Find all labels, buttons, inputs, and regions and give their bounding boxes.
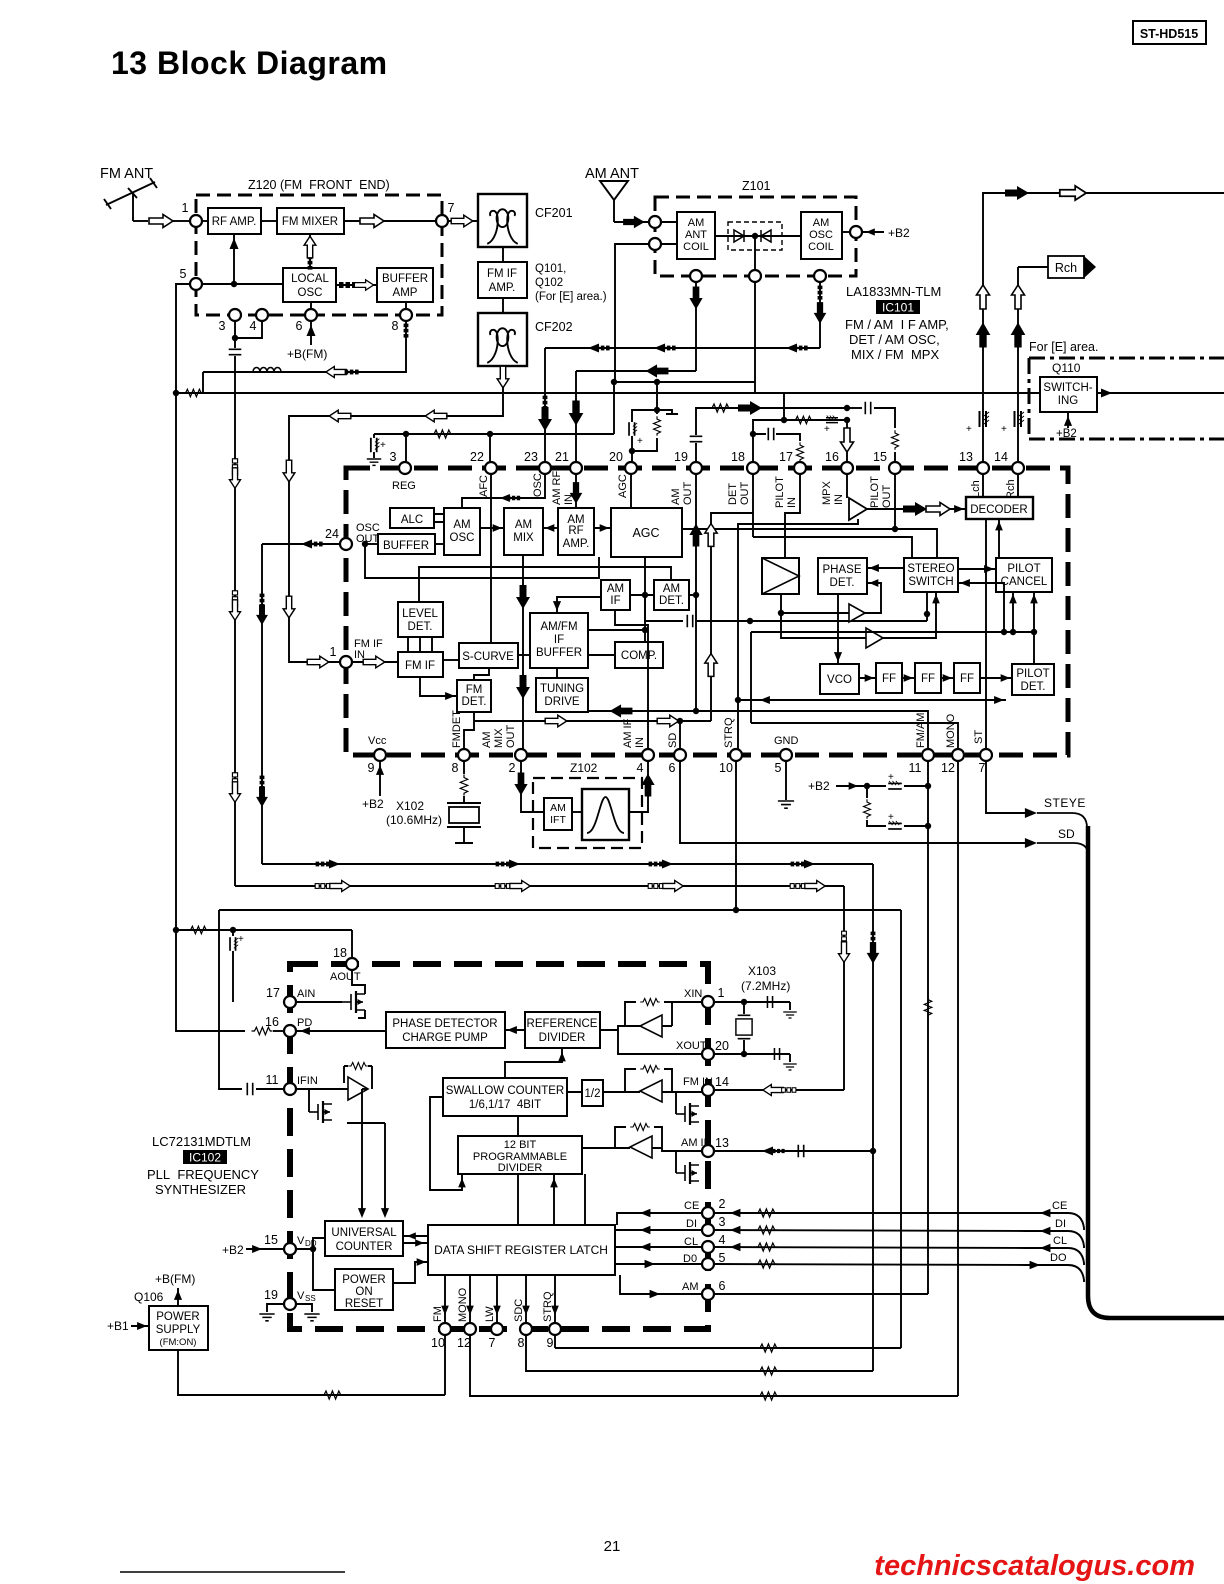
svg-text:IN: IN: [786, 497, 798, 508]
svg-text:PILOT: PILOT: [1016, 668, 1049, 680]
pin2 thick down arrow into Z102: [521, 761, 544, 812]
svg-text:FF: FF: [960, 673, 974, 685]
pin21 rail down with thick arrow: [575, 371, 577, 462]
open beads+arrow stacks on x=235 rail: [232, 459, 237, 475]
wire level det top to y567 row into AM DET top: [419, 567, 671, 602]
PD resistor: [252, 1027, 273, 1035]
svg-text:14: 14: [715, 1075, 729, 1089]
wire antenna to pin1: [133, 220, 148, 222]
SWALLOW COUNTER box: [443, 1078, 567, 1116]
pin3 down to junction: [234, 321, 236, 348]
pin18 ext wire up, cap right, resistor to pin17: [753, 434, 766, 462]
pin15 ext cap + resistor: [847, 407, 862, 409]
IC102 bottom pin 7 LW: [491, 1323, 503, 1335]
varactor diodes dashed box: [728, 222, 782, 250]
svg-text:Z101: Z101: [742, 179, 771, 193]
svg-text:IF: IF: [554, 634, 564, 646]
svg-text:FM/AM: FM/AM: [915, 713, 927, 748]
open arrow into pin 1: [149, 215, 173, 228]
IC101 pin 22 AFC: [489, 434, 491, 462]
svg-text:REG: REG: [392, 480, 416, 492]
svg-text:Rch: Rch: [1055, 261, 1077, 275]
buffer right to COMP: [588, 654, 615, 656]
ecap pair to FM/AM rail: [867, 785, 886, 787]
svg-text:X103: X103: [748, 964, 776, 978]
AM/FM IF BUFFER box: [530, 613, 588, 668]
LEVEL DET box: [398, 602, 443, 637]
pin23 rail down with beads + thick arrow: [544, 348, 546, 462]
svg-text:10: 10: [431, 1336, 445, 1350]
svg-text:(For [E] area.): (For [E] area.): [535, 291, 607, 303]
wire pin1-RFAMP: [202, 220, 208, 222]
PILOT CANCEL box: [996, 558, 1052, 592]
SD curve into bus: [1037, 843, 1089, 858]
pin 7: [436, 215, 448, 227]
IC101 dashed box: [346, 468, 1068, 755]
svg-text:Lch: Lch: [970, 480, 982, 498]
open left arrows on y=416 wire: [425, 410, 447, 422]
drop from coil wire down to resistor row: [202, 372, 204, 393]
Z102 filter box with curve: [582, 789, 629, 840]
svg-text:CF201: CF201: [535, 206, 573, 220]
IFIN amp + resistor: [296, 1088, 348, 1090]
svg-text:PLL FREQUENCY: PLL FREQUENCY: [147, 1167, 259, 1182]
svg-text:4: 4: [250, 319, 257, 333]
svg-text:+: +: [824, 424, 830, 435]
pin18 wire up to y420 row: [753, 420, 784, 434]
IC101 bottom pin 4 AM IF IN: [642, 749, 654, 761]
svg-text:AM: AM: [688, 217, 705, 229]
stubs local osc/buffer amp to pins 6/8: [311, 302, 406, 309]
svg-text:TUNING: TUNING: [540, 683, 584, 695]
svg-text:17: 17: [779, 450, 793, 464]
IC101 pin 17 PILOT IN: [794, 462, 806, 474]
inductor on pin8 wire: [253, 368, 281, 373]
thick bus down right side, curving right at bottom: [1088, 826, 1224, 1318]
stereo switch bottom rail with dot: [926, 592, 928, 621]
pin 8: [400, 309, 412, 321]
drop from y382 to pin20 cluster: [656, 382, 658, 410]
amp1 wiring to phase det right: [781, 583, 881, 613]
arrow stereo switch to pilot cancel: [958, 568, 996, 570]
svg-text:19: 19: [674, 450, 688, 464]
pilot det bottom wire y700: [738, 699, 1006, 701]
svg-text:4: 4: [637, 761, 644, 775]
AOUT mosfet: [352, 970, 365, 994]
svg-text:SD: SD: [1058, 827, 1075, 841]
wire AM ANT COIL down to y371 row, thick down arrow: [695, 282, 697, 371]
Z120 FM FRONT END dashed box: [196, 195, 442, 315]
svg-text:DIVIDER: DIVIDER: [498, 1162, 543, 1174]
1/2 box: [582, 1080, 603, 1106]
AFC pin22 rail down to S-CURVE top: [490, 474, 492, 643]
open arrow pin7 to CF201: [448, 220, 478, 222]
svg-text:IN: IN: [833, 494, 845, 505]
pilot out pin15 rail joins AGC line: [894, 474, 896, 529]
svg-text:AM: AM: [481, 732, 493, 749]
svg-text:3: 3: [390, 450, 397, 464]
pin17 PILOT IN wire down to comparator: [785, 474, 800, 558]
pin 16 PD: [284, 1025, 296, 1037]
svg-text:CF202: CF202: [535, 320, 573, 334]
CE wire to right with resistor and label: [714, 1212, 1026, 1214]
svg-text:6: 6: [719, 1279, 726, 1293]
svg-text:18: 18: [333, 946, 347, 960]
IC101 pin 23 OSC: [539, 462, 551, 474]
S-CURVE box: [459, 643, 518, 668]
svg-text:OSC: OSC: [298, 287, 323, 299]
arrow AM RF AMP to AGC: [594, 527, 611, 529]
svg-text:CE: CE: [1052, 1200, 1067, 1212]
buffer right wires to stereo switch rails: [682, 529, 937, 558]
TUNING DRIVE box: [536, 678, 588, 712]
series cap on rail: [229, 349, 242, 354]
svg-text:14: 14: [994, 450, 1008, 464]
arrow into stereo switch right at y583: [958, 583, 1004, 632]
pin5 GND drop: [785, 761, 787, 800]
svg-text:OSC: OSC: [809, 229, 833, 241]
solid rail x873 down to AM IN row: [872, 864, 874, 1371]
AM MIX box: [504, 508, 543, 555]
ref divider bottom to swallow counter top: [505, 1048, 562, 1078]
svg-text:V: V: [297, 1235, 305, 1247]
FF1 box: [876, 663, 902, 693]
svg-text:FM MIXER: FM MIXER: [282, 216, 338, 228]
BUFFER to AM OSC link: [435, 543, 444, 545]
ALC box: [390, 508, 434, 528]
DATA SHIFT REGISTER LATCH box: [428, 1225, 615, 1275]
svg-text:For [E] area.: For [E] area.: [1029, 340, 1098, 354]
UNIVERSAL COUNTER box: [325, 1221, 403, 1256]
drop from y382 to REG wire: [613, 382, 615, 434]
svg-text:1/6,1/17 4BIT: 1/6,1/17 4BIT: [469, 1099, 541, 1111]
svg-text:STEYE: STEYE: [1044, 796, 1086, 810]
svg-text:OUT: OUT: [881, 485, 893, 509]
svg-text:Q106: Q106: [134, 1290, 164, 1304]
DECODER box: [966, 497, 1033, 519]
IC102 bottom pin 9 STRQ: [549, 1323, 561, 1335]
arrows VCO-FF1-FF2-FF3-PILOT DET chain: [859, 677, 876, 679]
universal counter to DSRL double arrow: [403, 1236, 428, 1243]
FM IF - S-CURVE link: [443, 659, 459, 661]
open beads arrow into FM IN from right: [714, 1089, 844, 1091]
FM IF down to FM DET with arrow: [420, 677, 457, 696]
svg-text:DRIVE: DRIVE: [544, 696, 579, 708]
svg-text:15: 15: [873, 450, 887, 464]
svg-text:RF AMP.: RF AMP.: [212, 216, 257, 228]
svg-text:MPX: MPX: [821, 481, 833, 506]
AM DET right stub to AM OUT rail: [689, 594, 696, 596]
AGC box: [611, 508, 682, 557]
svg-text:24: 24: [325, 527, 339, 541]
branch from dot down to cap row y621: [645, 595, 683, 621]
FM IN mosfet: [676, 1103, 699, 1125]
left resistor row y930: [173, 927, 179, 933]
svg-text:CANCEL: CANCEL: [1001, 576, 1048, 588]
DSRL up arrows into 12bit divider: [554, 1174, 585, 1225]
svg-text:AGC: AGC: [617, 474, 629, 498]
model label ST-HD515: [1133, 21, 1206, 44]
wire y632 from mono rail to pilot det top: [751, 631, 1034, 633]
CF202 box: [478, 313, 527, 366]
svg-text:FM / AM I F AMP,: FM / AM I F AMP,: [845, 317, 949, 332]
svg-text:LOCAL: LOCAL: [291, 273, 329, 285]
pin 19 VSS: [284, 1298, 296, 1310]
svg-text:Z102: Z102: [570, 761, 598, 775]
ALC to AM OSC double link: [434, 514, 444, 522]
pin8 beads down then wire left: [203, 321, 406, 372]
AM OSC COIL box: [801, 212, 842, 259]
REFERENCE DIVIDER box: [525, 1012, 600, 1048]
x176 rail down to PD row: [176, 930, 245, 1031]
svg-text:19: 19: [264, 1288, 278, 1302]
amp2 wiring into stereo switch bottom: [781, 592, 936, 638]
svg-text:UNIVERSAL: UNIVERSAL: [331, 1227, 397, 1239]
ref divider right stub to xtal osc: [600, 1029, 618, 1031]
IC101 bottom pin 6 SD: [674, 749, 686, 761]
STRQ link wire y910: [219, 909, 901, 911]
Z102 dashed box: [533, 778, 642, 848]
svg-text:DET.: DET.: [462, 696, 487, 708]
svg-text:+: +: [888, 812, 894, 823]
AM IN mosfet: [676, 1162, 699, 1184]
svg-text:OSC: OSC: [450, 532, 475, 544]
svg-text:SD: SD: [667, 733, 679, 748]
AM wire from pin6 right, up the FM/AM rail: [714, 1293, 928, 1295]
svg-text:BUFFER: BUFFER: [382, 273, 428, 285]
CF202 output: open down arrow, down then left then down to FM IF IN: [289, 366, 503, 662]
+B2 feed into pin9 Vcc: [379, 761, 381, 796]
svg-text:+B2: +B2: [222, 1243, 244, 1257]
pin 18 AOUT: [346, 958, 358, 970]
svg-text:7: 7: [448, 201, 455, 215]
VCO box: [820, 664, 859, 694]
svg-text:RF: RF: [568, 525, 583, 537]
SD wire from pin6: [680, 761, 1030, 843]
row y371 with thick left arrow to pin21 rail: [576, 370, 696, 372]
pin24 wire left with beads+solid arrow to x=262 rail: [262, 543, 340, 545]
FM IF AMP box: [478, 262, 527, 298]
Z101 right pin and +B2: [850, 226, 862, 238]
svg-text:4: 4: [719, 1233, 726, 1247]
phase det bottom to VCO top with down arrow: [837, 594, 839, 664]
svg-text:DET.: DET.: [408, 621, 433, 633]
svg-text:AM: AM: [682, 1281, 699, 1293]
mid amp2: [866, 628, 883, 648]
svg-text:ALC: ALC: [401, 514, 423, 526]
svg-text:ST: ST: [973, 730, 985, 744]
MPX amp triangle: [849, 498, 867, 520]
svg-text:FM: FM: [466, 684, 483, 696]
FF3 box: [954, 663, 980, 693]
MONO wire y723 to pin12: [751, 723, 958, 749]
swallow counter left feed: [430, 1097, 462, 1190]
svg-text:SWALLOW COUNTER: SWALLOW COUNTER: [446, 1085, 564, 1097]
DO wire: [714, 1264, 1026, 1265]
svg-text:IC102: IC102: [189, 1151, 221, 1165]
svg-text:IFIN: IFIN: [297, 1075, 318, 1087]
solid bus y864: [262, 863, 873, 865]
beads + open arrow between LOCAL OSC and BUFFER AMP: [336, 284, 377, 286]
svg-text:FF: FF: [882, 673, 896, 685]
svg-text:20: 20: [715, 1039, 729, 1053]
svg-text:S-CURVE: S-CURVE: [462, 651, 514, 663]
FM DET box: [457, 680, 491, 712]
svg-text:AFC: AFC: [478, 475, 490, 497]
svg-text:XOUT: XOUT: [676, 1040, 707, 1052]
IC101 bottom pin 11 FM/AM: [922, 749, 934, 761]
svg-text:SS: SS: [305, 1294, 316, 1303]
wire RFAMP-FMMIXER: [261, 220, 277, 222]
RF AMP box: [208, 208, 261, 234]
svg-text:AMP.: AMP.: [489, 282, 516, 294]
svg-text:AM ANT: AM ANT: [585, 166, 639, 182]
solid arrow antenna to Z101: [614, 221, 649, 223]
svg-text:1: 1: [182, 201, 189, 215]
pin 11 IFIN: [284, 1083, 296, 1095]
pin 2 CE: [702, 1207, 714, 1219]
pin 3: [229, 309, 241, 321]
pin3 ext: electrolytic cap + wire up-right: [406, 434, 614, 462]
FM DET/SD wire y721 with open arrows to x=711 rail: [474, 720, 711, 722]
DSRL bottom feeds to bottom pins with down arrows: [445, 1275, 555, 1323]
resistor row y=393 to left rail: [176, 392, 203, 394]
open right arrow into pin 1 FM IF IN: [307, 656, 329, 668]
open bus y886: [235, 885, 844, 887]
Z101 bottom pins: [690, 270, 702, 282]
long rail x=235 down: [234, 356, 236, 886]
svg-text:+: +: [637, 436, 643, 447]
svg-text:XIN: XIN: [684, 988, 702, 1000]
pin20 wire into AGC: [630, 474, 632, 508]
STEREO SWITCH box: [904, 558, 958, 592]
svg-text:DI: DI: [686, 1218, 697, 1230]
pin10 STRQ drop to y910: [735, 761, 737, 910]
svg-text:AGC: AGC: [632, 526, 659, 540]
svg-text:13 Block Diagram: 13 Block Diagram: [111, 45, 388, 81]
svg-text:ON: ON: [355, 1286, 372, 1298]
svg-text:IN: IN: [634, 737, 646, 748]
svg-text:+B2: +B2: [1056, 428, 1077, 440]
Lch output wire top right: [983, 193, 1224, 237]
svg-text:21: 21: [604, 1538, 621, 1555]
svg-text:13: 13: [715, 1136, 729, 1150]
svg-text:AM/FM: AM/FM: [540, 621, 577, 633]
ST pin7 to STEYE: [986, 761, 1030, 813]
open left arrow + beads on pin8 wire: [326, 366, 346, 377]
pin 5: [190, 278, 202, 290]
svg-text:7: 7: [979, 761, 986, 775]
svg-text:DI: DI: [1055, 1218, 1066, 1230]
svg-text:2: 2: [509, 761, 516, 775]
POR to data shift register: [393, 1262, 428, 1283]
AM IN amp + resistor: [630, 1136, 652, 1158]
svg-text:AOUT: AOUT: [330, 971, 361, 983]
pin 3 DI: [702, 1224, 714, 1236]
svg-text:(FM:ON): (FM:ON): [160, 1337, 197, 1348]
S-CURVE right to buffer: [518, 654, 530, 656]
OSC pin23 wire down-left into AM OSC with left arrow+beads: [462, 474, 545, 508]
open up arrows on Lch/Rch rails: [977, 285, 990, 309]
arrow ref divider to charge pump: [505, 1029, 525, 1031]
resistor + small ecap row into pin16 col: [784, 419, 847, 421]
AM IF box: [601, 580, 630, 610]
pilot phase comparator box with diagonals: [762, 558, 799, 594]
svg-text:AM IN: AM IN: [681, 1137, 712, 1149]
svg-text:DIVIDER: DIVIDER: [539, 1032, 586, 1044]
pin4 joins pin3 rail: [235, 321, 262, 338]
drop from y930 row to AOUT pin: [351, 930, 353, 958]
svg-text:8: 8: [452, 761, 459, 775]
Q106 bottom wire to FM pin via resistor: [178, 1335, 445, 1395]
DSRL wires to serial pins: [617, 1213, 702, 1225]
svg-text:+: +: [966, 424, 972, 435]
svg-text:12 BIT: 12 BIT: [504, 1139, 537, 1151]
svg-text:DET.: DET.: [659, 595, 684, 607]
svg-text:+B2: +B2: [362, 797, 384, 811]
svg-text:5: 5: [719, 1251, 726, 1265]
Z101 middle pin drop to y393: [754, 282, 756, 393]
FM DET bottom to pin 8: [464, 712, 474, 749]
svg-text:+: +: [888, 772, 894, 783]
FF2 box: [915, 663, 941, 693]
AM RF AMP box: [558, 508, 594, 555]
svg-text:AM: AM: [515, 519, 532, 531]
STRQ bottom row: [555, 1347, 901, 1349]
svg-text:11: 11: [266, 1073, 279, 1087]
amp out to universal counter rails: [362, 1088, 368, 1090]
svg-text:SYNTHESIZER: SYNTHESIZER: [155, 1182, 246, 1197]
Q110 dash-dot box: [1029, 358, 1224, 439]
svg-text:PILOT: PILOT: [869, 476, 881, 508]
IC101 pin 1 FM IF IN (left edge): [340, 656, 352, 668]
svg-text:3: 3: [719, 1215, 726, 1229]
pin4 rail up to AM IF bottom: [615, 610, 648, 749]
FM MIXER box: [277, 208, 344, 234]
svg-text:OUT: OUT: [505, 725, 517, 749]
svg-text:22: 22: [470, 450, 484, 464]
FM IF box: [398, 652, 443, 677]
footer rule: [120, 1571, 345, 1573]
pin 4: [256, 309, 268, 321]
svg-text:20: 20: [609, 450, 623, 464]
open rail x844 down to FM IN row: [843, 886, 845, 1090]
pilot cancel top to decoder bottom arrow: [998, 519, 1000, 558]
svg-text:DECODER: DECODER: [970, 504, 1028, 516]
svg-text:IFT: IFT: [550, 814, 566, 826]
X103 crystal circuit: [714, 1001, 790, 1003]
svg-text:9: 9: [368, 761, 375, 775]
svg-text:1: 1: [718, 986, 725, 1000]
x219 rail down to IFIN row: [219, 910, 242, 1089]
svg-text:SWITCH-: SWITCH-: [1043, 382, 1092, 394]
svg-text:FM IF: FM IF: [487, 268, 517, 280]
svg-text:MONO: MONO: [457, 1287, 469, 1322]
Z101 left pins: [649, 216, 661, 228]
pin 14 FM IN: [702, 1084, 714, 1096]
svg-text:12: 12: [941, 761, 955, 775]
svg-text:SWITCH: SWITCH: [908, 576, 953, 588]
svg-text:1/2: 1/2: [585, 1088, 601, 1100]
AM MIX down rail to pin2 with thick arrows: [522, 555, 524, 749]
row y348 with bead arrows to pin23 rail: [545, 347, 820, 349]
FM IN amp + resistor: [640, 1080, 662, 1102]
CF201-FMIFAMP-CF202 connectors: [502, 247, 504, 262]
svg-text:2: 2: [719, 1197, 726, 1211]
PD wire to phase detector charge pump with left arrow: [296, 1030, 386, 1032]
svg-text:STEREO: STEREO: [907, 563, 954, 575]
svg-text:8: 8: [518, 1336, 525, 1350]
